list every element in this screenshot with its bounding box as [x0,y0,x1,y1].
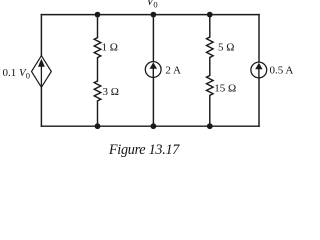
node dot bottom branch2 [151,123,157,129]
wire branch3 bottom [209,95,211,126]
wire branch3 middle [209,58,211,76]
wire left edge lower [40,87,42,126]
current source 0.5A [251,62,267,78]
resistor 3ohm [94,81,101,101]
node dot bottom branch1 [95,123,101,129]
svg-text:Figure 13.17: Figure 13.17 [108,142,180,158]
wire branch1 top [97,15,99,38]
wire bottom [41,125,259,127]
wire left edge upper [40,15,42,56]
node dot top branch1 [95,12,101,18]
current source 2A [145,62,161,78]
wire branch3 top [209,15,211,37]
svg-text:0.5 A: 0.5 A [270,64,294,76]
resistor 1ohm [94,38,101,58]
node dot bottom branch3 [207,123,213,129]
svg-text:3 Ω: 3 Ω [103,86,119,98]
resistor 15ohm [207,76,214,96]
wire branch1 bottom [97,101,99,126]
wire right edge full [258,15,260,127]
svg-text:2 A: 2 A [165,64,181,76]
wire top [41,14,259,16]
svg-text:5 Ω: 5 Ω [218,42,234,54]
svg-text:15 Ω: 15 Ω [214,83,236,95]
svg-text:V0: V0 [147,0,158,9]
wire branch2 (2A) full [152,15,154,127]
wire branch1 middle [97,58,99,81]
resistor 5ohm [207,37,214,57]
dependent source 0.1V0 diamond [32,56,52,88]
svg-text:1 Ω: 1 Ω [102,42,118,54]
node dot top branch2 [151,12,157,18]
node dot top branch3 [207,12,213,18]
